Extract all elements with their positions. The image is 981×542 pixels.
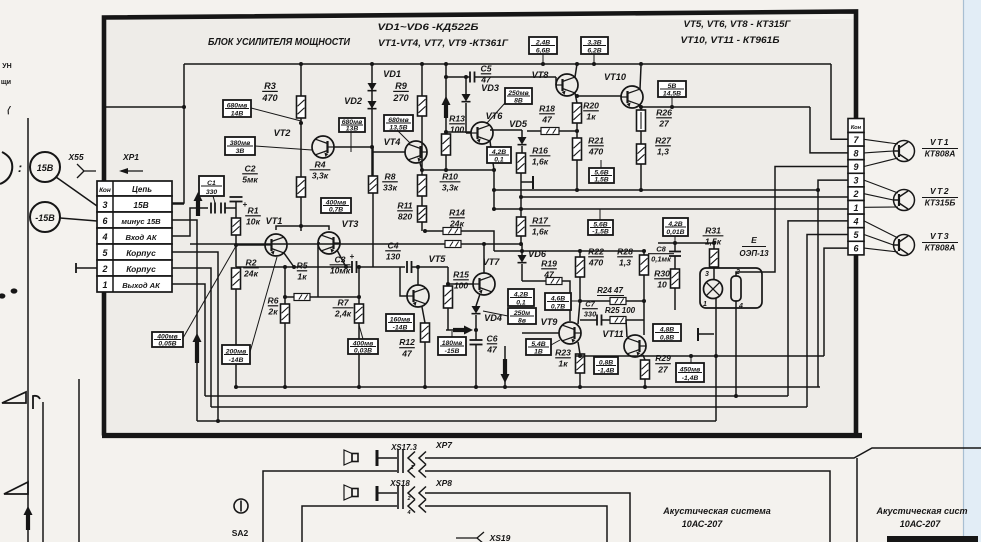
wire R22 top — [579, 251, 581, 257]
wire pointer 250mV to VT6 — [487, 103, 505, 123]
svg-text:0,1мк: 0,1мк — [651, 255, 672, 264]
svg-text:820: 820 — [398, 212, 413, 222]
svg-text:-15В: -15В — [35, 213, 55, 223]
wire R31 top — [713, 243, 715, 249]
label box 3.3V 6.2V — [581, 37, 608, 54]
wire pointer 5.6V neg — [599, 209, 601, 220]
resistor horizontal mid — [445, 241, 461, 248]
svg-text:1В: 1В — [534, 348, 543, 355]
svg-text:3,3к: 3,3к — [312, 171, 329, 181]
connector bars XP7 — [397, 449, 399, 473]
wire C8 R31 row — [658, 242, 716, 244]
svg-text:VT6: VT6 — [486, 111, 504, 121]
wire lamp bottom — [715, 298, 717, 421]
wire VT11 collector — [626, 320, 627, 337]
wire pointer 450mV — [690, 356, 692, 363]
svg-text:47: 47 — [486, 345, 498, 355]
wire pointer 680mV 13.5V — [398, 131, 410, 143]
wire to VT3 base — [864, 235, 894, 246]
svg-text:Кон: Кон — [851, 125, 862, 131]
svg-text:VT3: VT3 — [930, 231, 950, 241]
wire R22 bottom — [579, 277, 581, 301]
label box 5V 14.5V — [658, 81, 686, 97]
connector pin 3 — [848, 173, 864, 187]
wire R16 bottom tap — [520, 173, 522, 217]
resistor R18 horizontal — [541, 128, 559, 135]
transistor VT8 — [556, 74, 578, 96]
wire R6 top — [284, 267, 286, 304]
svg-text:УН: УН — [2, 63, 11, 70]
wire emitter rail right — [641, 106, 810, 108]
svg-text:47: 47 — [541, 115, 553, 125]
svg-text:2,4к: 2,4к — [334, 309, 352, 319]
svg-text:100: 100 — [450, 125, 465, 135]
resistor R31 — [710, 249, 719, 267]
svg-text:R12: R12 — [399, 337, 415, 347]
connector pin 8 — [848, 146, 864, 160]
wire to VT2 base — [864, 194, 894, 200]
svg-text:R18: R18 — [539, 103, 555, 113]
svg-text:VT2: VT2 — [930, 186, 950, 196]
svg-text:33к: 33к — [383, 183, 398, 193]
wire emitter row — [576, 355, 824, 357]
wire R5 row — [285, 296, 294, 298]
svg-text:XS17.3: XS17.3 — [390, 443, 417, 452]
junction bar row 2 — [75, 263, 77, 273]
optocoupler lamp — [704, 280, 723, 299]
svg-text:4: 4 — [738, 303, 743, 310]
svg-text:Акустическая система: Акустическая система — [662, 506, 771, 516]
svg-text:R16: R16 — [532, 145, 548, 155]
wire R4 down — [300, 197, 302, 226]
speaker icon 1 — [352, 454, 358, 462]
wire VT10 collector — [640, 66, 641, 89]
svg-text:Кон: Кон — [99, 187, 111, 194]
diode VD1 — [368, 83, 377, 91]
wire VT4 emitter to node — [420, 163, 422, 170]
connector table XP1 — [97, 181, 172, 196]
margin triangle symbol 1 — [2, 392, 26, 403]
wire R20 R21 — [576, 123, 578, 138]
svg-text:R1: R1 — [248, 205, 259, 215]
wire VT7 emitter to VD4 — [476, 294, 480, 306]
wire VD5 to R16 — [521, 146, 523, 153]
resistor R19 horizontal — [546, 278, 562, 285]
svg-text:1,3: 1,3 — [619, 258, 631, 268]
svg-text:0,1: 0,1 — [494, 156, 504, 163]
svg-text:R24 47: R24 47 — [597, 286, 623, 295]
svg-text:10: 10 — [657, 280, 667, 290]
wire cell3 jog — [818, 180, 848, 387]
speaker box right filled — [887, 536, 978, 542]
wire R28 bottom — [643, 275, 645, 301]
wire to VT2 emitter — [864, 206, 898, 208]
node -15V circle — [30, 202, 60, 232]
resistor R25 horizontal — [610, 317, 626, 324]
svg-text:R4: R4 — [315, 159, 326, 169]
svg-text:R5: R5 — [297, 260, 308, 270]
svg-text:XP7: XP7 — [435, 440, 453, 450]
svg-text:470: 470 — [261, 93, 278, 103]
wire cell7 riser — [831, 64, 848, 139]
output transistor VT1 — [894, 141, 915, 162]
capacitor C6 — [470, 339, 483, 341]
svg-text:XP8: XP8 — [435, 478, 452, 488]
svg-text:VT3: VT3 — [342, 219, 359, 229]
svg-text:С3: С3 — [335, 254, 346, 264]
svg-text:+: + — [350, 252, 355, 261]
wire VT3 base link — [318, 243, 320, 297]
wire VT1 emitter — [284, 253, 294, 267]
svg-text:0,01В: 0,01В — [666, 229, 684, 236]
transistor VT2 — [312, 136, 334, 158]
wire R6 bottom — [284, 323, 286, 387]
wire bottom rail 2 — [205, 395, 788, 397]
svg-text:R25 100: R25 100 — [605, 306, 636, 315]
label box 4.2V 0.01V — [663, 218, 688, 236]
svg-text:Вход АК: Вход АК — [125, 233, 157, 242]
resistor R6 — [281, 304, 290, 323]
label box 250mV 8V — [505, 88, 532, 104]
wire row output AK — [172, 284, 205, 396]
svg-text:47: 47 — [401, 349, 413, 359]
label box 450mV -1.4V — [676, 363, 704, 382]
wire R11 bottom — [421, 222, 423, 231]
svg-text:270: 270 — [392, 93, 409, 103]
wire pointer 5V — [671, 97, 673, 107]
label box 380mV 3V — [225, 137, 255, 155]
wire R15 base link — [448, 283, 473, 285]
margin wire vertical A — [27, 118, 29, 542]
svg-text:XS18: XS18 — [389, 479, 410, 488]
label box 0.8V -1.4V — [594, 357, 618, 374]
wire channel1 hot — [425, 448, 981, 458]
svg-text:1к: 1к — [558, 359, 568, 369]
margin music note single — [33, 396, 40, 409]
wire channel2 left — [302, 506, 397, 542]
diode VD3 — [462, 94, 471, 102]
connector pin 4 — [848, 214, 864, 228]
label box 5.6V -1.5V — [588, 220, 613, 235]
wire cell4 riser — [788, 221, 848, 396]
wire cell8 riser — [810, 107, 848, 153]
svg-text:Корпус: Корпус — [126, 248, 156, 258]
wire R15 bottom — [447, 308, 449, 330]
wire VT9 collector — [578, 301, 580, 324]
transistor VT10 — [621, 86, 643, 108]
wire VD4 bottom — [475, 315, 477, 340]
svg-text:4: 4 — [101, 232, 107, 242]
svg-text:3,3к: 3,3к — [442, 183, 459, 193]
diode VD6 — [518, 255, 527, 263]
wire speaker2 feed — [377, 492, 397, 494]
svg-text:Выход АК: Выход АК — [122, 281, 161, 290]
wire pointer 250mV second — [483, 311, 508, 316]
wire pointer 180mV — [451, 331, 453, 337]
svg-text:С6: С6 — [487, 333, 498, 343]
wire VT5 collector — [417, 267, 419, 285]
wire pointer 400mV 0.05V — [183, 246, 236, 338]
svg-text:5мк: 5мк — [242, 175, 258, 185]
transistor VT4 — [405, 141, 427, 163]
svg-text:X55: X55 — [67, 152, 83, 162]
label box 4.2V 0.1 second — [508, 289, 534, 306]
svg-text:R10: R10 — [442, 171, 458, 181]
ground tap symbol right — [697, 328, 699, 341]
terminal bar XS17 — [376, 450, 379, 466]
svg-text:С5: С5 — [481, 63, 492, 73]
svg-text:VD5: VD5 — [509, 119, 528, 129]
svg-text:VD3: VD3 — [481, 83, 499, 93]
svg-text:1: 1 — [102, 280, 107, 290]
wire VT8 base — [555, 77, 557, 85]
svg-text:щи: щи — [1, 79, 11, 86]
connector pin 6 — [848, 241, 864, 255]
wire VD column — [371, 64, 373, 176]
wire VT8 emitter — [575, 93, 577, 103]
svg-text:Е: Е — [751, 235, 757, 245]
svg-text:1к: 1к — [586, 112, 596, 122]
resistor R21 — [573, 138, 582, 160]
wire pointer 5.6V — [600, 160, 602, 168]
capacitor C8 — [669, 251, 681, 253]
wire VT6 base — [466, 132, 471, 134]
wire R23 bottom — [579, 373, 581, 387]
wire R21 bottom — [576, 160, 578, 190]
wire R27 bottom — [640, 164, 642, 190]
svg-text:VT5, VT6, VT8 - КТ315Г: VT5, VT6, VT8 - КТ315Г — [684, 19, 792, 30]
svg-text:2: 2 — [852, 189, 858, 199]
resistor R12 — [421, 323, 430, 342]
svg-text:R21: R21 — [588, 135, 604, 145]
svg-text:VT7: VT7 — [483, 257, 501, 267]
connector pin 5 — [848, 228, 864, 242]
capacitor C1 — [210, 203, 212, 214]
wire R26 top — [640, 107, 642, 110]
svg-text:330: 330 — [206, 189, 218, 196]
svg-text:VT1: VT1 — [266, 216, 283, 226]
wire row input AK — [172, 208, 208, 236]
wire pointer 4.6V — [571, 300, 583, 302]
wire R9 to R10 node — [421, 116, 423, 175]
svg-text:XS19: XS19 — [489, 533, 511, 542]
wire arrow row — [446, 329, 453, 331]
label box 250mV 8V second — [508, 308, 536, 324]
svg-text:10к: 10к — [246, 217, 261, 227]
wire arrow column — [445, 64, 447, 134]
resistor R28 — [640, 255, 649, 275]
resistor R30 — [671, 269, 680, 288]
svg-text:14,5В: 14,5В — [663, 90, 681, 97]
svg-text:13В: 13В — [346, 126, 359, 133]
svg-text:R27: R27 — [655, 135, 672, 145]
wire VD6 bottom — [521, 264, 523, 281]
optocoupler body — [700, 268, 762, 308]
wire VD5 top — [490, 129, 522, 131]
wire VT7 collector — [483, 244, 485, 273]
label box 180mV -15V — [438, 337, 466, 355]
svg-text:VT1-VT4, VT7, VT9 -КТ361Г: VT1-VT4, VT7, VT9 -КТ361Г — [378, 38, 509, 49]
svg-text:0,05В: 0,05В — [158, 341, 176, 348]
wire pointer 200mV — [250, 257, 277, 352]
bold arrow to C6 — [453, 328, 467, 332]
wire cell5 riser — [807, 235, 848, 408]
wire R30 bottom — [674, 288, 676, 310]
margin bracket symbol — [0, 152, 12, 184]
transistor VT7 — [473, 273, 495, 295]
capacitor C1 label box — [199, 176, 224, 196]
wire to VT3 collector — [864, 221, 898, 238]
wire VT9 emitter — [578, 342, 580, 354]
resistor R15 — [444, 286, 453, 308]
capacitor C3 — [351, 261, 353, 273]
svg-text:С8: С8 — [656, 244, 666, 253]
connector pin 1 — [848, 201, 864, 215]
label box 680mV 14V — [223, 100, 251, 117]
wire VT5 emitter — [422, 307, 425, 323]
wire row minus15V — [172, 220, 197, 421]
svg-text:VT8: VT8 — [532, 70, 550, 80]
wire VT8 emitter to VT10 base — [577, 95, 622, 97]
svg-text:XP1: XP1 — [122, 152, 139, 162]
svg-text:330: 330 — [584, 310, 597, 319]
svg-text:С2: С2 — [245, 163, 256, 173]
svg-text:3В: 3В — [236, 148, 245, 155]
capacitor C7 — [596, 315, 598, 326]
scan tint inside frame — [106, 19, 854, 433]
wire rail to R9 — [421, 64, 423, 96]
capacitor C4 — [406, 261, 408, 273]
wire C8 to R30 — [674, 256, 676, 269]
wire to VT1 emitter — [864, 158, 898, 167]
svg-text:1: 1 — [853, 203, 858, 213]
resistor R20 — [573, 103, 582, 123]
wire R28 top — [643, 251, 645, 255]
svg-text:VT9: VT9 — [541, 317, 559, 327]
label box 5.4V 1V — [526, 339, 551, 355]
svg-text:Цепь: Цепь — [132, 185, 152, 194]
label box 4.8V 0.8V — [653, 324, 681, 341]
resistor R3 — [297, 96, 306, 118]
plug arcs XP8 wire2 — [408, 500, 415, 513]
connector pin 2 — [848, 187, 864, 201]
output transistor VT3 — [894, 235, 915, 256]
svg-text:10АС-207: 10АС-207 — [900, 519, 942, 529]
svg-text:1,5В: 1,5В — [594, 177, 608, 184]
wire to VT1 collector — [864, 139, 898, 144]
svg-text:8В: 8В — [514, 97, 523, 104]
wire pointer 2.4V — [542, 54, 544, 64]
wire bottom rail 4 — [197, 420, 716, 422]
transistor VT1 — [265, 234, 287, 256]
wire mid rail — [190, 243, 521, 245]
resistor R23 — [576, 354, 585, 373]
wire VD6 top — [521, 244, 523, 255]
svg-text:130: 130 — [386, 252, 401, 262]
svg-text:VD2: VD2 — [344, 96, 363, 106]
svg-text:VT5: VT5 — [429, 254, 447, 264]
wire R8 bottom — [372, 193, 374, 267]
svg-text:VT10: VT10 — [604, 72, 627, 82]
wire row body 2 — [172, 268, 211, 407]
svg-text:R17: R17 — [532, 215, 549, 225]
wire from -15V circle to XP1 table — [60, 218, 97, 221]
output transistor VT2 — [894, 190, 915, 211]
svg-text:2к: 2к — [267, 307, 278, 317]
wire VT10 emitter — [640, 105, 641, 107]
wire to VT1 base — [864, 151, 894, 153]
wire VT11 base link — [643, 301, 645, 320]
svg-text:R20: R20 — [583, 100, 599, 110]
resistor R11 — [418, 206, 427, 222]
svg-text:VT11: VT11 — [602, 329, 623, 339]
wire step R10 — [422, 170, 494, 209]
wire mid row right — [494, 250, 644, 252]
wire VT2 collector emitter — [334, 146, 372, 148]
wire channel1 return left — [263, 471, 397, 542]
svg-text:0,8В: 0,8В — [660, 334, 674, 341]
svg-text:0,7В: 0,7В — [551, 303, 565, 310]
wire row body 5 — [172, 252, 218, 421]
svg-text:ОЭП-13: ОЭП-13 — [739, 249, 769, 258]
svg-text:R31: R31 — [705, 225, 721, 235]
svg-text:13,5В: 13,5В — [389, 124, 407, 131]
resistor R16 — [517, 153, 526, 173]
wire feedback rail B — [521, 196, 848, 198]
power amplifier block border frame — [104, 12, 856, 436]
svg-text:-1,5В: -1,5В — [592, 229, 609, 236]
wire R26 R27 — [640, 131, 642, 144]
resistor R17 — [517, 217, 526, 236]
svg-text:27: 27 — [658, 119, 670, 129]
svg-text:R2: R2 — [246, 257, 257, 267]
wire R18 row — [527, 130, 541, 132]
label box 400mV 0.03V — [348, 339, 378, 354]
svg-text:R11: R11 — [397, 200, 412, 210]
transistor VT3 — [318, 232, 340, 254]
wire C6 bottom — [475, 345, 477, 388]
svg-text:R15: R15 — [453, 269, 469, 279]
wire rail to R3 — [300, 64, 302, 96]
svg-text:R14: R14 — [449, 207, 465, 217]
svg-text:R30: R30 — [654, 268, 670, 278]
socket symbol XS19 — [456, 537, 478, 539]
wire R3 to VT2 — [300, 118, 302, 177]
resistor R27 — [637, 144, 646, 164]
plug arcs XP7 wire1 — [408, 452, 415, 465]
wire R13 to VT6 base — [446, 131, 471, 133]
label box 4.2V 0.1 — [487, 147, 511, 163]
label box 400mV 0.05V — [152, 332, 183, 347]
svg-text:-15В: -15В — [445, 348, 460, 355]
resistor R10 — [418, 175, 427, 196]
wire photoresistor top to cell9 — [736, 272, 762, 276]
wire feedback rail C — [494, 208, 848, 210]
wire feedback rail A — [494, 189, 818, 191]
svg-text:R8: R8 — [385, 171, 396, 181]
label box 2.4V 6.6V — [529, 37, 557, 54]
wire VT1 base — [236, 244, 265, 246]
wire cell9 riser — [762, 167, 848, 273]
wire inner left rail — [172, 64, 184, 203]
resistor R24 horizontal — [610, 298, 626, 305]
resistor R2 — [232, 268, 241, 289]
svg-text:8в: 8в — [518, 317, 526, 324]
resistor R26 — [637, 110, 646, 131]
wire pointer 380mV — [255, 146, 312, 150]
svg-text:R6: R6 — [268, 295, 279, 305]
wire C3 row — [236, 266, 352, 268]
